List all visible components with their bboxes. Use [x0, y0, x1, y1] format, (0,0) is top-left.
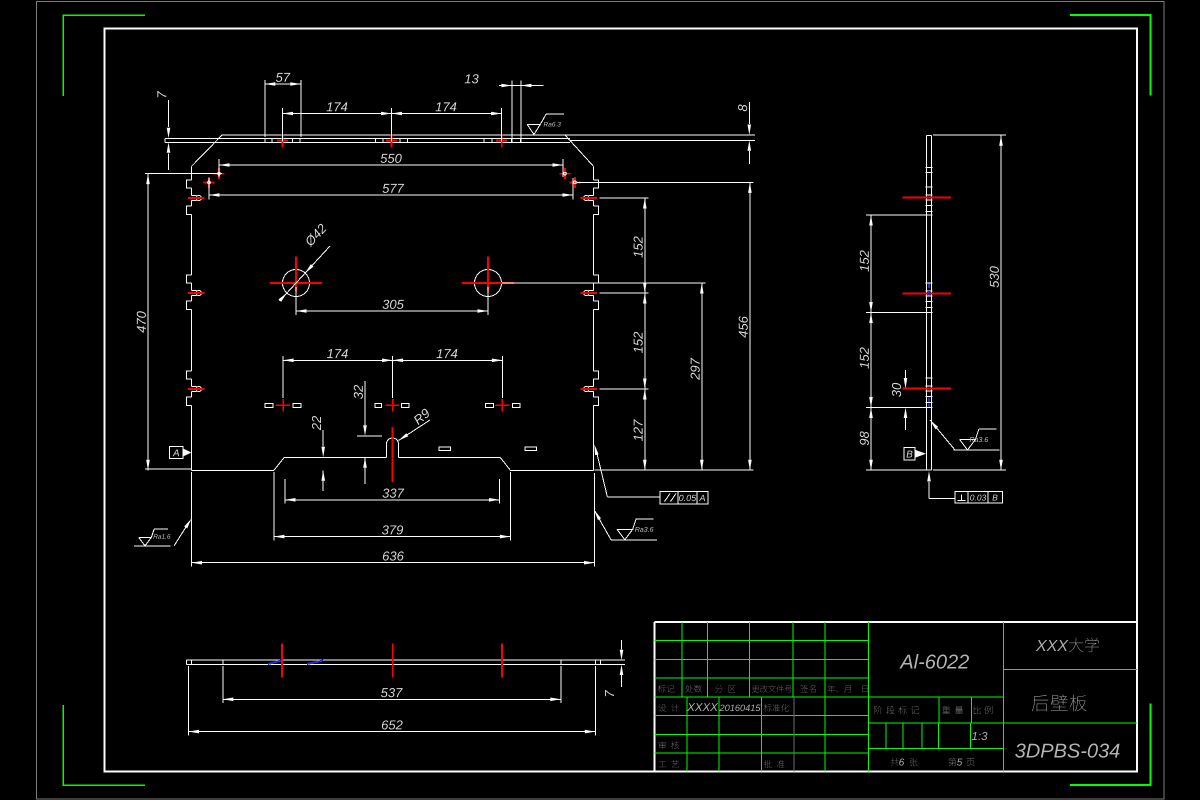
red centerline of left slot y=293: [188, 292, 205, 294]
sheet count row: [890, 758, 898, 766]
title row: process row: [659, 760, 679, 768]
red crosshair right hole: [462, 282, 514, 284]
drawing number 3DPBS-034: [1015, 744, 1119, 758]
side view: extension lines left: [866, 214, 927, 216]
title block left grid verticals (lower rows): [686, 697, 688, 772]
perpendicularity frame leader: [929, 497, 955, 499]
surface finish Ra3.6 (bottom right) with leader: [611, 539, 657, 541]
dim 577: [208, 178, 210, 200]
dim 470: [145, 173, 222, 175]
datum flag B: [904, 448, 915, 461]
red centerline of left slot y=198: [188, 197, 205, 199]
main view: right edge: [593, 166, 595, 180]
dim 30: [905, 370, 907, 379]
red centerline of right slot y=293: [581, 292, 598, 294]
main view: right chamfer diagonal: [565, 135, 594, 166]
dim 127: [644, 389, 646, 470]
left edge notch cluster at y=198: [186, 180, 191, 188]
main view: left chamfer diagonal: [192, 135, 223, 166]
parallelism frame leader: [607, 496, 660, 498]
right edge notch cluster at y=293: [594, 275, 599, 283]
dim 456: [577, 181, 754, 183]
main view: right flange lower line: [570, 139, 755, 141]
main view: top flange bottom line: [165, 141, 570, 143]
right edge notch cluster at y=389: [594, 371, 599, 379]
dim 174 (top right): [501, 108, 503, 142]
flange slots (top strip): [265, 139, 272, 143]
red centerline of left slot y=389: [188, 388, 205, 390]
dim 152 (upper right): [600, 197, 649, 199]
dim 537: [222, 666, 224, 703]
material Al-6022: [899, 654, 969, 669]
dim 379: [273, 472, 275, 541]
dim 152 (lower right): [600, 388, 649, 390]
corner hole center marks (550/577 reference): [214, 173, 225, 175]
leader dia 42: [280, 246, 331, 301]
small slots above bottom edge: [439, 447, 451, 451]
long red centerline through R9 notch: [392, 427, 394, 482]
part name: [1032, 695, 1087, 712]
dim 7 (bottom view): [601, 659, 626, 661]
title row: design row: [658, 704, 679, 712]
ext line below left hole: [295, 287, 297, 315]
surface finish Ra6.3 (top): [527, 123, 540, 125]
surface finish Ra3.6 (side view) with leader: [954, 449, 1000, 451]
dim 297: [502, 282, 706, 284]
corner bracket bottom-right: [1070, 704, 1151, 786]
main view: top flange line b: [165, 137, 570, 139]
bottom view: blue dashes: [268, 661, 281, 665]
title block main verticals: [867, 622, 869, 772]
dim 550: [218, 159, 220, 177]
corner bracket top-right: [1070, 15, 1151, 96]
dim 22: [322, 430, 324, 447]
lower slot row rectangles: [265, 403, 273, 407]
main view: top flange left end cap: [164, 138, 166, 142]
ext line below right hole: [487, 287, 489, 315]
title block middle section lines: [868, 696, 1003, 698]
hole circle left (dia 42): [283, 270, 310, 297]
dim 152 (side lower): [870, 313, 872, 408]
red centerline of right slot y=389: [581, 388, 598, 390]
dim 337: [284, 479, 286, 504]
main view: top flange edge line (top face): [222, 134, 755, 136]
red centerline of right slot y=198: [581, 197, 598, 199]
red center marks on lower slot row: [276, 404, 290, 406]
dim 174 (lower left): [282, 356, 284, 398]
main view: bottom edge with raised middle tab: [192, 457, 387, 470]
title block right section lines: [1004, 669, 1137, 671]
dim 305: [296, 310, 488, 312]
bottom view: strip outline: [187, 659, 601, 661]
university name XXX: [1036, 640, 1069, 651]
dim 98: [870, 408, 872, 471]
R9 notch in middle tab: [387, 438, 399, 457]
inner drawing frame (white): [105, 28, 1138, 771]
perpendicularity tolerance frame 0.03 B: [955, 492, 1003, 504]
surface finish Ra1.6 (bottom left) with leader: [134, 545, 171, 547]
main view: left edge: [191, 166, 193, 180]
stage mark row: [874, 706, 919, 714]
title block left grid verticals (upper rows): [681, 622, 683, 697]
title block outer border: [654, 621, 1137, 623]
dim 174 (lower right): [501, 356, 503, 398]
dim 636: [191, 472, 193, 567]
title row: audit row: [659, 741, 679, 749]
dim 32: [357, 435, 382, 437]
side view: feature tick lines: [926, 167, 933, 169]
right edge notch cluster at y=198: [594, 180, 599, 188]
parallelism tolerance frame // 0.05 A: [660, 491, 708, 504]
dim 7 (flange thickness left): [168, 100, 170, 127]
hole circle right (dia 42): [475, 270, 502, 297]
dim 13: [511, 81, 513, 143]
datum flag A: [170, 447, 183, 459]
side view: extension line top right: [933, 134, 1006, 136]
dim 8 (flange thickness right): [748, 102, 750, 124]
side view: red centerlines: [903, 197, 952, 199]
side view: bar outline: [926, 135, 928, 470]
red center marks on top strip: [277, 139, 288, 141]
title row: header labels: [658, 685, 675, 693]
side view: blue feature marks: [928, 284, 930, 289]
leader R9: [399, 420, 431, 441]
scale 1:3: [972, 732, 988, 740]
dim 57: [264, 80, 266, 137]
red crosshair left hole: [270, 282, 322, 284]
dim 152 (side upper): [870, 215, 872, 313]
dim 530: [1000, 135, 1002, 470]
title block left grid horizontal lines: [654, 640, 868, 642]
left edge notch cluster at y=389: [186, 371, 191, 379]
dim 652: [188, 666, 190, 736]
corner bracket bottom-left: [63, 705, 145, 785]
left edge notch cluster at y=293: [186, 275, 191, 283]
dim 174 (top left): [282, 108, 284, 142]
corner bracket top-left: [63, 15, 145, 96]
bottom view: red centerlines: [281, 643, 283, 677]
bottom view: internal ticks: [190, 660, 192, 664]
